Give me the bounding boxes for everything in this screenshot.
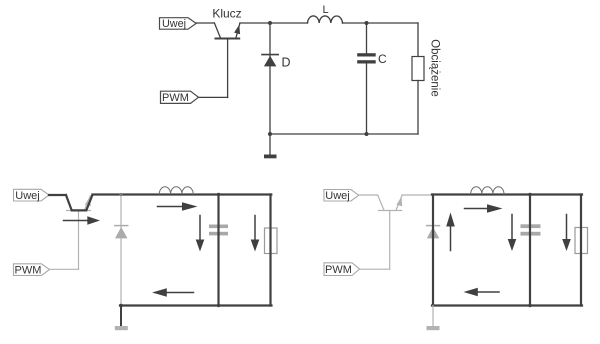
left edge bold (diode conducting) <box>432 195 434 306</box>
transistor grey arrowhead <box>396 197 402 207</box>
transistor grey remnant (bar, collector slope, arrow) <box>67 196 91 211</box>
wire collector to square grey <box>402 194 433 196</box>
label Uwej (top input) <box>160 18 197 31</box>
transistor grey arrowhead <box>85 197 91 207</box>
wire to ground grey <box>432 306 434 327</box>
diode grey symbol <box>427 225 440 227</box>
diode current arrow (up) <box>450 227 452 251</box>
wire to ground <box>269 134 271 155</box>
node dot at diode top <box>119 193 122 196</box>
label Uwej (bottom-right) <box>324 190 359 203</box>
node junction at diode branch <box>268 21 272 25</box>
wire PWM to base grey <box>360 268 390 270</box>
svg-text:Uwej: Uwej <box>325 190 349 202</box>
capacitor branch bold <box>217 195 219 306</box>
current arrow top rail <box>465 208 489 210</box>
current arrow top rail <box>158 206 184 208</box>
wire Uwej to transistor emitter <box>196 22 214 24</box>
base wire grey <box>78 211 80 270</box>
bottom rail bold <box>432 304 582 306</box>
svg-text:Uwej: Uwej <box>15 190 39 202</box>
wire Uwej to transistor grey <box>359 194 378 196</box>
load current arrow (down) <box>566 215 568 241</box>
node dot cap bottom <box>528 304 531 307</box>
inductor humps (thin) <box>159 187 193 194</box>
svg-text:PWM: PWM <box>325 264 352 276</box>
label Uwej (bottom-left) <box>14 189 50 202</box>
diode D (freewheeling) <box>262 55 278 67</box>
ground symbol grey <box>115 326 128 330</box>
label PWM (bottom-right) <box>324 263 360 276</box>
bottom rail bold <box>120 304 272 306</box>
label PWM (bottom-left) <box>14 264 50 277</box>
node junction ground <box>268 132 272 136</box>
load box grey <box>575 228 588 254</box>
svg-text:L: L <box>322 4 328 16</box>
wire capacitor branch upper <box>366 23 368 53</box>
capacitor current arrow (down) <box>199 216 201 241</box>
diode grey symbol <box>115 225 128 227</box>
transistor conducting path (bold dip) <box>66 195 92 210</box>
node dot cap top <box>217 193 220 196</box>
current arrow through transistor <box>64 220 89 222</box>
label PWM (top) <box>161 91 199 104</box>
capacitor current arrow (down) <box>511 215 513 241</box>
wire PWM to base grey <box>50 268 79 270</box>
svg-text:C: C <box>378 52 387 66</box>
svg-text:PWM: PWM <box>15 264 42 276</box>
diode branch grey (left edge, not conducting) <box>120 195 122 306</box>
wire inductor to right edge <box>343 22 419 24</box>
capacitor C <box>357 53 376 63</box>
node junction at capacitor branch (top) <box>365 21 369 25</box>
wire to ground bold <box>120 306 122 327</box>
svg-text:D: D <box>282 56 291 70</box>
return current arrow (left) <box>167 292 194 294</box>
wire collector to top rail / node <box>240 22 308 24</box>
wire right edge upper <box>417 23 419 57</box>
ground symbol <box>264 155 277 159</box>
wire right edge lower <box>417 81 419 135</box>
wire Uwej to transistor (bold, conducting) <box>49 194 66 196</box>
right edge bold <box>269 195 271 306</box>
wire capacitor branch lower <box>366 64 368 135</box>
inductor humps (thin) <box>471 187 504 194</box>
transistor grey (off) <box>378 195 402 269</box>
node junction capacitor bottom <box>365 132 369 136</box>
transistor Klucz (switch) <box>214 23 240 98</box>
load current arrow (down) <box>254 216 256 241</box>
right edge bold <box>580 195 582 306</box>
wire PWM to base <box>199 96 228 98</box>
wire diode branch vertical <box>269 23 271 134</box>
load resistor Obciazenie (box) <box>412 57 424 81</box>
top rail bold <box>92 193 271 195</box>
load box grey <box>265 228 278 254</box>
node dot cap bottom <box>217 304 220 307</box>
svg-text:Klucz: Klucz <box>212 6 241 20</box>
svg-text:Obciążenie: Obciążenie <box>429 39 441 97</box>
top rail bold <box>432 193 582 195</box>
inductor L <box>308 16 343 23</box>
svg-text:PWM: PWM <box>162 92 189 104</box>
node dot cap top <box>528 193 531 196</box>
svg-text:Uwej: Uwej <box>162 18 186 30</box>
ground symbol grey <box>427 326 440 330</box>
wire bottom rail <box>270 133 418 135</box>
capacitor plates grey <box>521 224 541 235</box>
capacitor plates grey <box>209 225 228 236</box>
capacitor branch bold <box>529 195 531 306</box>
return current arrow (left) <box>478 291 499 293</box>
node dot ground corner <box>119 304 123 308</box>
